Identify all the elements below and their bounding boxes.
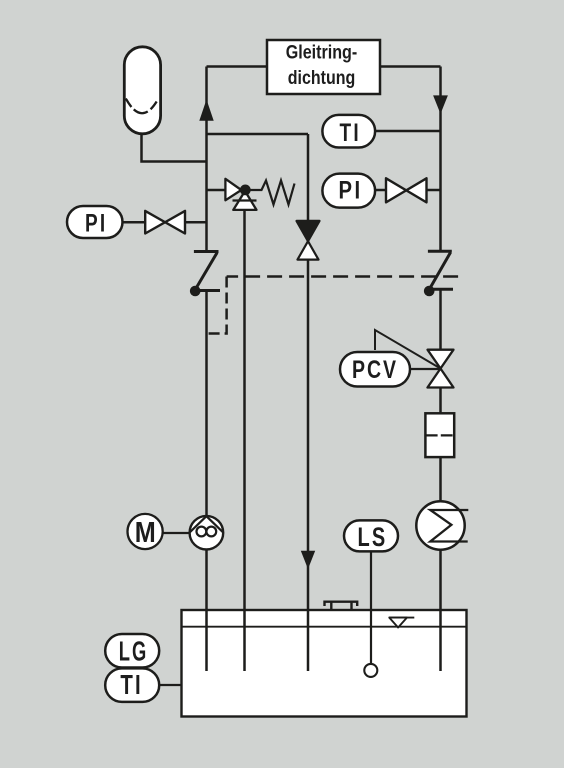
filter F1 <box>425 413 454 457</box>
Z-break symbol left <box>190 252 220 297</box>
Gleitringdichtung box <box>267 40 380 94</box>
pipe: relief valve outlet to tank <box>243 210 246 671</box>
svg-text:LG: LG <box>119 636 149 667</box>
svg-text:PI: PI <box>85 210 108 238</box>
relief valve body triangle <box>225 179 241 201</box>
gate valve V1 (left PI) <box>145 211 185 234</box>
pipe: TI bubble to right main <box>374 130 441 133</box>
pipe: gate valve V2 to right main <box>427 189 441 192</box>
pipe: left main line lower (pump to tank) <box>205 549 208 671</box>
pipe: box right connection <box>380 65 441 68</box>
check valve (filled cone over seat cone) <box>297 221 320 260</box>
pipe: right main line Z-break to PCV valve <box>439 289 442 350</box>
gate valve V2 (right PI) <box>386 178 427 202</box>
pipe: filter to cooler <box>439 457 442 502</box>
pipe: PI right to gate valve V2 <box>374 189 386 192</box>
pipe: right main line upper (x=440.5) <box>439 67 442 252</box>
svg-text:M: M <box>135 517 156 549</box>
pipe: branch header to center line <box>207 133 309 136</box>
instrument bubble TI (tank) <box>105 668 159 702</box>
svg-text:TI: TI <box>339 119 361 147</box>
svg-text:PI: PI <box>339 177 363 205</box>
svg-text:LS: LS <box>358 522 388 552</box>
PCV control valve body <box>428 350 454 388</box>
pipe: box left connection <box>207 65 268 68</box>
PCV actuator triangle <box>375 330 441 369</box>
tank level mark <box>389 618 415 628</box>
pipe: relief valve branch <box>207 189 226 192</box>
relief valve seat bar <box>233 199 257 201</box>
instrument bubble LG <box>105 634 159 668</box>
signal: PCV bubble connector <box>409 368 441 370</box>
accumulator A1 <box>124 47 160 134</box>
pipe: cooler to tank <box>439 550 442 672</box>
svg-text:Gleitring-: Gleitring- <box>286 42 358 63</box>
signal: TI tank connector <box>159 684 182 686</box>
flow arrow down (right main) <box>433 95 448 114</box>
pipe: center line upper (to check valve) <box>307 134 310 221</box>
instrument bubble PI (right) <box>322 174 375 208</box>
LS float <box>364 664 377 677</box>
signal: motor shaft connector <box>163 532 191 534</box>
tank liquid surface line <box>182 626 467 628</box>
instrument bubble PCV <box>340 352 410 387</box>
tank filler cap <box>325 602 358 611</box>
reservoir tank T1 <box>182 610 467 717</box>
flow arrow down (center line) <box>301 551 315 569</box>
motor M1 <box>128 514 163 549</box>
pipe: gate valve V1 to left main <box>185 221 207 224</box>
instrument bubble TI (top) <box>322 115 375 148</box>
svg-text:PCV: PCV <box>352 356 398 384</box>
pipe: PCV valve to filter <box>439 388 442 414</box>
instrument bubble PI (left) <box>67 206 123 238</box>
relief valve spring <box>251 181 295 205</box>
signal: LS dip tube <box>370 552 372 664</box>
svg-text:TI: TI <box>120 669 143 700</box>
pipe: left main line mid (Z-break bottom to pump) <box>205 291 208 517</box>
dashed signal line (Z-break link) <box>227 275 459 278</box>
flow arrow up (left main) <box>199 100 213 121</box>
pipe: left main line upper (x=206.5) <box>205 67 208 251</box>
cooler / heat exchanger W1 <box>416 501 468 549</box>
instrument bubble LS <box>344 520 398 552</box>
svg-text:dichtung: dichtung <box>288 68 356 89</box>
pipe: accumulator outlet <box>142 132 207 162</box>
relief valve outlet triangle <box>233 191 256 210</box>
relief valve ball <box>240 185 251 196</box>
pipe: center line lower (check valve to tank) <box>307 260 310 672</box>
Z-break symbol right <box>424 251 453 296</box>
pipe: PI left to gate valve V1 <box>120 221 145 224</box>
pump P1 (gear pump) <box>190 516 224 550</box>
